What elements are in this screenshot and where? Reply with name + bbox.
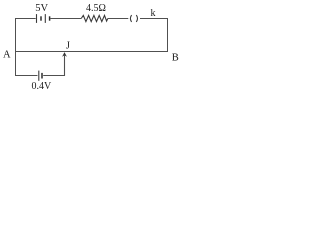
wire: bottom horizontal from left corner to battery (16, 75, 38, 77)
wire: top-left horizontal from corner to battery (16, 18, 36, 20)
wire: main potentiometer wire from A to B (16, 51, 169, 53)
svg-text:0.4V: 0.4V (32, 81, 53, 92)
wire: key to top-right corner then down toward B (140, 19, 168, 52)
svg-text:k: k (151, 8, 156, 19)
wire: battery to resistor (50, 18, 81, 20)
key k (plug key, open) (130, 15, 137, 22)
wire: battery right to jockey riser corner (43, 75, 64, 77)
svg-text:J: J (66, 41, 70, 52)
wire: left vertical from top corner through node A to bottom loop (15, 18, 17, 76)
svg-text:A: A (3, 50, 11, 61)
jockey J arrowhead (62, 52, 67, 57)
jockey J riser wire (64, 55, 66, 76)
battery B2 0.4V (1 cell) (39, 71, 42, 81)
wire: resistor to key (108, 18, 129, 20)
svg-text:5V: 5V (35, 3, 48, 14)
battery B1 5V (2 cells) (37, 14, 50, 23)
svg-text:4.5Ω: 4.5Ω (86, 3, 106, 14)
resistor R1 4.5 ohm zigzag (81, 15, 108, 21)
svg-text:B: B (172, 53, 179, 64)
